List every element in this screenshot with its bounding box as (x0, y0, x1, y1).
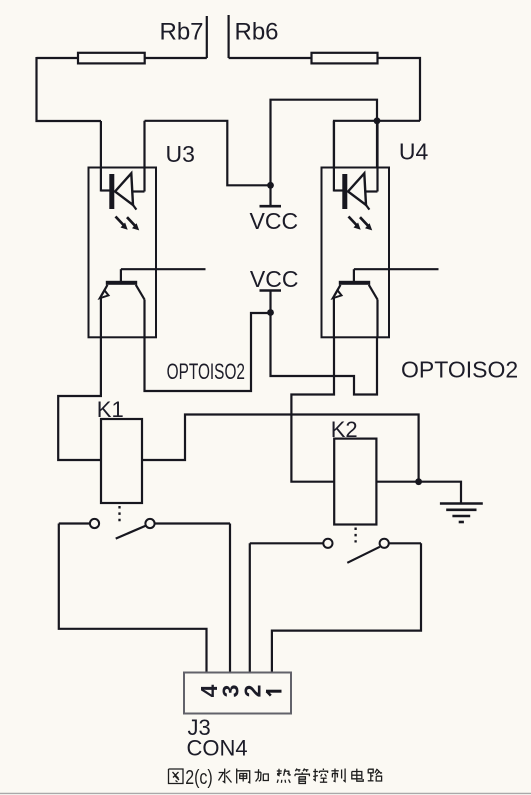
svg-text:CON4: CON4 (187, 736, 248, 761)
svg-text:Rb7: Rb7 (160, 19, 204, 46)
wire Rb7 stub (206, 16, 208, 58)
U4 LED pins (333, 121, 335, 192)
wire S1 left rail to pin4 (59, 524, 207, 673)
wire S1 right (155, 522, 230, 524)
wire S2 left rail to pin2 (249, 543, 251, 672)
wire left drop to U3 anode (37, 57, 102, 121)
U3 LED pins (100, 121, 102, 192)
bottom separator line (0, 792, 531, 794)
connector J3 body (184, 673, 291, 714)
caption 图2(c)水闸加热管控制电路 (drawn glyphs) (169, 769, 184, 784)
relay K2 linkage dashed (354, 528, 356, 543)
U4 emitter (335, 285, 341, 296)
svg-text:OPTOISO2: OPTOISO2 (167, 360, 245, 384)
U3 LED pin connectors (101, 189, 110, 191)
wire K2 to ground (376, 482, 461, 503)
svg-text:2: 2 (240, 685, 266, 698)
U4 LED pin connectors (334, 189, 343, 191)
svg-text:VCC: VCC (250, 208, 299, 234)
wire U3 cathode to VCC (145, 121, 271, 186)
wire S2 right rail to pin1 (272, 543, 421, 672)
resistor Rb7 (78, 53, 145, 64)
ground (440, 502, 483, 505)
wire Rb6 net to U4 LED (334, 121, 420, 168)
wire resistor Rb6 right (378, 58, 421, 121)
U3 LED cathode bar (109, 174, 114, 209)
switch S1 blade (116, 526, 146, 539)
svg-text:Rb6: Rb6 (235, 19, 279, 46)
U4 phototransistor base wire (354, 268, 439, 270)
switch S2 contacts (323, 539, 332, 548)
wire U3 collector to VCC2 (145, 313, 271, 391)
relay K2 coil (334, 439, 376, 525)
node junction Rb6/VCC/U4 (374, 117, 381, 124)
U3 phototransistor base bar (106, 281, 137, 285)
relay K1 linkage dashed (118, 506, 120, 522)
power VCC upper (267, 182, 274, 189)
U4 phototransistor base bar (339, 281, 370, 285)
wire S1 right rail to pin3 (229, 524, 231, 673)
wire U4 emitter to K2 (291, 337, 334, 481)
U3 LED triangle (115, 173, 133, 205)
U4 LED triangle (348, 173, 366, 205)
relay K1 coil (101, 419, 142, 503)
wire resistor Rb6 left (229, 57, 312, 59)
optocoupler U4 body (322, 168, 390, 338)
wire Rb6 stub (228, 15, 230, 58)
switch S2 blade (347, 547, 380, 563)
U4 light emission arrows (349, 217, 358, 227)
resistor Rb6 (312, 53, 378, 64)
wire VCC2 to U4 collector (dogleg) (271, 313, 378, 395)
wire resistor Rb7 right (145, 57, 207, 59)
U3 phototransistor base wire (121, 268, 206, 270)
U4 collector (369, 285, 378, 300)
wire K1 right to K2 right rail (142, 415, 419, 482)
wire U3 emitter to K1 (58, 337, 101, 460)
svg-text:OPTOISO2: OPTOISO2 (401, 356, 518, 382)
wire S2 right (389, 542, 421, 544)
svg-text:2(c): 2(c) (185, 766, 213, 788)
switch S1 contacts (90, 519, 99, 528)
U4 LED cathode bar (342, 174, 347, 209)
svg-text:VCC: VCC (250, 266, 299, 292)
optocoupler U3 body (89, 168, 157, 338)
svg-text:U4: U4 (399, 139, 429, 165)
svg-text:U3: U3 (166, 141, 195, 167)
wire S2 left (250, 542, 323, 544)
node junction K2/ground (415, 478, 422, 485)
U3 light emission arrows (116, 217, 125, 227)
wire resistor Rb7 left (37, 57, 79, 59)
U3 collector (136, 285, 145, 300)
wire S1 left (59, 522, 90, 524)
wire VCC riser (271, 100, 378, 186)
U3 emitter (102, 285, 108, 296)
